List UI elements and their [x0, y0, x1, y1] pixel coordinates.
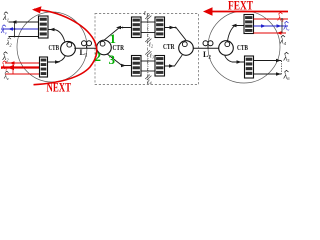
- divider line: [147, 14, 149, 85]
- divider dotted row1: [147, 18, 149, 37]
- transformer box row2 right: [155, 56, 165, 77]
- loop circle right: [208, 11, 280, 83]
- svg-text:CTB: CTB: [49, 44, 60, 52]
- wire box2 to CTB: [48, 56, 66, 62]
- inductor L1: [82, 41, 92, 48]
- svg-text:ℓ1: ℓ1: [144, 11, 149, 17]
- arrow wire box2: [55, 60, 60, 64]
- wire pair1 port vertical: [14, 22, 16, 37]
- label lambda6: [283, 70, 291, 81]
- svg-text:FEXT: FEXT: [228, 0, 253, 12]
- break mark m4: [145, 75, 151, 80]
- label lambda1: [2, 12, 9, 23]
- label lambdaV2 blue: [283, 21, 290, 32]
- wire CTR to row1: [104, 28, 132, 41]
- svg-text:ℓ2: ℓ2: [149, 43, 154, 49]
- label lambda2: [2, 52, 10, 63]
- transformer box row1 left: [132, 17, 142, 38]
- wire pair4 bottom: [254, 73, 282, 75]
- node row1 bend: [122, 27, 124, 29]
- arrow to box4: [237, 60, 242, 64]
- wire row2 upper: [141, 60, 155, 62]
- label lambda4: [279, 35, 287, 46]
- wire pair3 blue: [254, 25, 289, 27]
- arrow pair3 red: [277, 31, 282, 35]
- FEXT arrowhead: [203, 7, 213, 15]
- divider dotted row2: [147, 56, 149, 76]
- wire row1 to CTR right: [165, 28, 187, 41]
- wire row1 lower: [141, 32, 155, 34]
- wire pair1 blue line: [1, 28, 39, 30]
- break mark m3: [145, 50, 151, 55]
- inductor L2: [203, 41, 213, 48]
- label lambda2s: [6, 38, 12, 48]
- arrow pair4 top: [276, 59, 281, 63]
- transformer box pair3: [244, 15, 254, 34]
- label lambda3 red: [277, 12, 285, 23]
- wire pair1 bottom line: [9, 36, 39, 38]
- transformer box pair4: [245, 56, 254, 78]
- svg-text:NEXT: NEXT: [47, 81, 72, 93]
- wire pair2 line b: [5, 73, 40, 75]
- arrow pair1 blue: [8, 27, 13, 31]
- wire CTR to row2: [107, 54, 131, 66]
- arrow CTR row1: [116, 26, 121, 30]
- node row1 right bend: [175, 27, 177, 29]
- node pair3 dot: [281, 18, 283, 20]
- choke CTR right: [179, 41, 194, 56]
- wire pair3 bottom red: [254, 32, 287, 34]
- arrow pair2 thick: [7, 65, 14, 70]
- transformer box pair1: [39, 16, 49, 38]
- NEXT arrow curve: [34, 9, 97, 84]
- wire pair3 port vertical: [281, 19, 283, 33]
- wire row2 to CTR right: [165, 55, 183, 66]
- label lambda5: [283, 52, 291, 63]
- port pair4 dotted: [281, 61, 283, 74]
- arrow pair3 blue mid: [261, 24, 266, 28]
- svg-text:1: 1: [110, 31, 117, 46]
- wire L2 link: [193, 47, 218, 49]
- break mark m1: [145, 15, 151, 20]
- svg-text:ℓ3: ℓ3: [150, 54, 155, 60]
- arrow pair2 a: [10, 61, 15, 65]
- choke CTR left: [97, 40, 112, 55]
- wire row1 upper: [141, 21, 155, 23]
- arrow pair1 top: [12, 20, 17, 24]
- arrow row1 right: [170, 26, 175, 30]
- svg-text:CTR: CTR: [163, 43, 175, 51]
- svg-text:3: 3: [109, 52, 116, 67]
- node pair1 blue dot: [14, 28, 16, 30]
- loop circle left: [17, 12, 87, 82]
- arrow pair4 bottom: [276, 72, 281, 76]
- wire CTB right to box4: [225, 55, 245, 62]
- wire row2 lower: [141, 70, 155, 72]
- wire pair2 line a: [5, 62, 40, 64]
- dashed channel box: [95, 14, 199, 85]
- wire pair3 top red: [254, 18, 289, 20]
- arrow to box1: [50, 28, 55, 32]
- wire pair4 top: [254, 60, 282, 62]
- label lambdaX red: [1, 61, 8, 72]
- transformer box pair2: [40, 57, 48, 77]
- wire L1 link: [74, 47, 96, 49]
- FEXT arrow shaft: [208, 11, 289, 13]
- label lambdaV blue: [0, 25, 7, 36]
- wire CTB right to box3: [228, 26, 245, 41]
- arrow pair3 blue: [277, 24, 282, 28]
- choke CTB left: [61, 41, 76, 56]
- NEXT arrowhead: [32, 6, 42, 13]
- transformer box row1 right: [155, 17, 165, 38]
- wire pair1 top line: [9, 21, 39, 23]
- wire pair2 thick line: [1, 66, 40, 68]
- node pair1 top dot: [14, 21, 16, 23]
- svg-text:ℓ4: ℓ4: [147, 80, 152, 86]
- arrow CTR row2: [121, 64, 126, 68]
- label lambdaZ: [3, 71, 9, 81]
- break mark m2: [145, 38, 151, 43]
- svg-text:CTB: CTB: [237, 44, 248, 52]
- arrow to CTB right: [232, 24, 237, 28]
- transformer box row2 left: [132, 56, 142, 77]
- choke CTB right: [219, 41, 234, 56]
- wire box1 to CTB: [48, 30, 65, 42]
- wire pair2 port vertical: [12, 63, 14, 74]
- arrow row2 right: [169, 64, 174, 68]
- node pair1 bottom dot: [14, 36, 16, 38]
